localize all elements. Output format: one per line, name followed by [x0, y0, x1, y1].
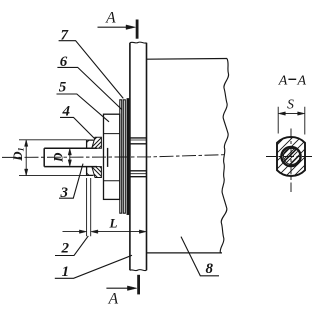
svg-text:A: A [105, 10, 116, 27]
svg-text:3: 3 [59, 185, 68, 201]
svg-text:D1: D1 [10, 147, 26, 162]
svg-text:D: D [50, 152, 65, 163]
svg-text:6: 6 [60, 54, 68, 70]
svg-text:S: S [287, 96, 294, 111]
svg-text:L: L [109, 216, 118, 231]
svg-text:1: 1 [62, 264, 70, 280]
svg-text:8: 8 [206, 261, 214, 277]
svg-text:A: A [278, 74, 288, 89]
svg-text:5: 5 [59, 80, 67, 96]
svg-text:A: A [108, 290, 119, 307]
svg-text:7: 7 [61, 28, 69, 44]
svg-text:2: 2 [61, 241, 70, 257]
svg-text:4: 4 [62, 103, 71, 119]
svg-text:A: A [297, 74, 307, 89]
